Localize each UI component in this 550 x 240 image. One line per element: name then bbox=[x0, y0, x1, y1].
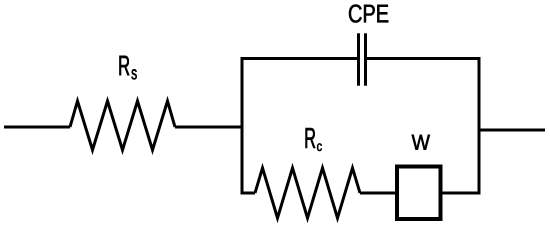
wire top branch left segment bbox=[241, 57, 358, 60]
wire Warburg box to right vertical bbox=[442, 192, 481, 195]
label Rs subscript s bbox=[132, 69, 137, 79]
label W bbox=[412, 135, 430, 150]
wire left lead bbox=[4, 126, 70, 129]
wire Rc to Warburg box bbox=[360, 192, 396, 195]
capacitor CPE left plate bbox=[357, 33, 360, 85]
wire top branch right segment bbox=[367, 57, 481, 60]
label Rc letter R bbox=[306, 128, 316, 148]
wire right vertical branch of parallel block bbox=[478, 57, 481, 195]
capacitor CPE right plate bbox=[364, 33, 367, 85]
label Rs letter R bbox=[119, 56, 129, 75]
wire left vertical branch of parallel block bbox=[241, 57, 244, 195]
wire bottom branch left segment bbox=[241, 192, 256, 195]
resistor R1 (Rs) bbox=[70, 101, 175, 150]
wire Rs to left node bbox=[175, 126, 242, 129]
resistor R2 (Rc) bbox=[255, 168, 360, 218]
Warburg element W (box) bbox=[397, 167, 441, 220]
label CPE bbox=[349, 5, 388, 23]
wire right lead bbox=[479, 129, 545, 132]
label Rc subscript c bbox=[317, 143, 322, 151]
